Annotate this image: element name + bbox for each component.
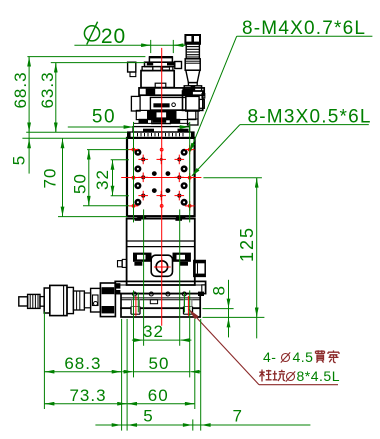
text 50 left	[71, 173, 90, 194]
svg-text:8-M4X0.7*6L: 8-M4X0.7*6L	[242, 18, 366, 39]
z-stage top plate	[145, 62, 175, 67]
vertical ext 179.3	[179, 209, 181, 345]
Ø symbol of Ø20	[84, 26, 99, 41]
text 32 left	[93, 169, 112, 190]
svg-text:5: 5	[143, 407, 153, 426]
svg-text:68.3: 68.3	[64, 354, 101, 373]
x-mic section	[67, 287, 73, 313]
svg-text:63.3: 63.3	[38, 71, 57, 108]
glyph 坑	[273, 370, 286, 381]
dim 63.3 left	[55, 63, 57, 133]
micrometer neck	[188, 83, 197, 86]
dim 8 right	[228, 280, 230, 338]
vertical ext 143.2	[143, 209, 145, 345]
dim 73.3 bottom	[44, 403, 127, 405]
y-stage right knob	[194, 261, 205, 277]
ext line A y132	[26, 131, 127, 133]
y-stage rounded square	[151, 255, 172, 276]
PLATE-HOLES	[129, 145, 195, 211]
dim 60 bottom	[127, 403, 195, 405]
band A-B	[127, 132, 195, 138]
50-pattern red cross marks	[129, 145, 195, 211]
svg-text:60: 60	[148, 386, 169, 405]
x-mic body	[50, 285, 67, 315]
z-stage right body	[183, 91, 205, 110]
dim 5 left bottom arrow	[28, 139, 30, 147]
svg-text:8: 8	[210, 285, 229, 295]
svg-text:5: 5	[10, 155, 29, 165]
z-stage right tab	[175, 62, 182, 69]
micrometer ratchet ribbed	[186, 44, 199, 59]
svg-text:32: 32	[93, 169, 112, 190]
x-mic small	[84, 293, 90, 308]
bottom vertical ext 192.4	[192, 419, 194, 430]
x-mic step	[40, 297, 44, 307]
svg-text:4-: 4-	[263, 349, 276, 365]
dim 68.3 left	[28, 57, 30, 174]
ext 68.3 top	[27, 56, 145, 58]
long vertical ext 189.3	[189, 122, 191, 222]
main plate	[127, 138, 195, 216]
z-stage left tab	[128, 62, 136, 76]
plate feet	[137, 216, 146, 220]
svg-text:50: 50	[92, 107, 116, 128]
y-stage center circle	[156, 261, 168, 273]
svg-text:32: 32	[143, 322, 164, 341]
svg-text:8-M3X0.5*6L: 8-M3X0.5*6L	[248, 107, 372, 128]
bottom vertical ext 44	[43, 311, 45, 409]
svg-text:4.5: 4.5	[293, 349, 314, 365]
glyph 穿	[328, 350, 339, 362]
inner 4 dots	[152, 171, 170, 193]
block row y119-123	[133, 119, 189, 124]
text 125 right	[237, 226, 257, 262]
dim 32 bottom	[144, 339, 180, 341]
y-stage clamp arm right	[173, 253, 191, 266]
x-mic flange	[44, 288, 50, 313]
x-mic ribbed thimble	[28, 294, 40, 308]
y-stage left bits	[118, 259, 127, 267]
leader 8-M4	[237, 35, 373, 37]
ext 63.3 top	[51, 62, 145, 64]
dim 125 right	[256, 178, 258, 339]
y-stage circle cross	[154, 259, 171, 276]
svg-text:68.3: 68.3	[11, 71, 30, 108]
z-stage neck2	[152, 120, 171, 124]
bottom vertical ext 121.2	[121, 319, 123, 431]
dim 68.3 bottom	[44, 371, 121, 373]
glyph 柱	[259, 370, 271, 382]
x-mic bracket	[100, 283, 115, 317]
svg-text:8*4.5L: 8*4.5L	[297, 368, 340, 384]
glyph 貫	[316, 350, 325, 362]
ext line B y137.9	[22, 137, 127, 139]
bottom vertical ext 200.3	[200, 319, 202, 431]
svg-text:50: 50	[149, 354, 170, 373]
dim 32 left	[112, 160, 114, 196]
text 63.3 left	[38, 71, 57, 108]
M3 holes with crosses	[141, 157, 181, 197]
x-stage table	[115, 281, 205, 293]
svg-text:50: 50	[71, 173, 90, 194]
text 70 left	[41, 168, 60, 189]
y-stage box	[127, 219, 195, 285]
dim line Ø20	[74, 44, 185, 46]
z-stage shoulders	[142, 67, 173, 71]
svg-text:7: 7	[232, 407, 242, 426]
micrometer cap U-top	[185, 35, 200, 44]
micrometer taper sleeve	[186, 70, 200, 82]
svg-text:125: 125	[237, 226, 257, 262]
dim 70 left	[62, 138, 64, 216]
counterbore centerline right	[187, 296, 189, 316]
x-mic tip	[19, 297, 28, 306]
z-stage mid flange	[139, 88, 204, 95]
z-stage body2 center block	[150, 97, 186, 110]
x-stage base	[121, 292, 204, 309]
dim 50 bottom	[134, 371, 190, 373]
bottom vertical ext 194.4	[194, 319, 196, 409]
RED-CENTERLINES	[121, 48, 201, 326]
micrometer lock nut	[184, 86, 201, 91]
bottom vertical ext 126.7	[126, 319, 128, 431]
Ø symbol line1	[282, 354, 290, 362]
Ø symbol line2	[287, 373, 295, 381]
svg-text:20: 20	[101, 25, 126, 48]
plate horizontal centerline	[121, 177, 201, 179]
long vertical ext 133.1	[133, 122, 135, 222]
svg-text:73.3: 73.3	[69, 386, 106, 405]
clamp plate row A	[133, 127, 190, 132]
text 68.3 left	[11, 71, 30, 108]
y-stage clamp arm left	[133, 253, 152, 266]
x-mic coupling	[91, 288, 101, 312]
z-stage body2 right block	[186, 96, 199, 111]
text 8 right	[210, 285, 229, 295]
leader 8-M3	[240, 124, 369, 126]
z-stage body2 left column	[131, 96, 140, 111]
micrometer barrel	[185, 59, 200, 70]
z-stage body2 far-right tab	[199, 99, 204, 108]
dim 50 left	[88, 150, 90, 206]
main vertical centerline	[161, 48, 163, 326]
dim 50 top	[68, 126, 134, 128]
x-mic spindle	[73, 291, 84, 310]
vertical ext 184.1 x-stage	[184, 292, 186, 312]
z-stage knob cap	[149, 57, 173, 62]
z-stage main body	[141, 71, 174, 88]
text 5 left	[10, 155, 29, 165]
DARKRED-ANNOTATION	[189, 309, 340, 384]
x-stage bottom plate	[121, 308, 200, 317]
counterbore right	[184, 300, 193, 315]
z-stage saddle dark cluster	[136, 110, 198, 125]
vertical ext 137.9 x-stage	[137, 292, 139, 312]
dim 5/7 bottom line	[95, 424, 310, 426]
counterbore left	[131, 300, 140, 315]
M4 donut holes	[134, 149, 187, 206]
leader 4-hole	[189, 309, 259, 384]
counterbore centerline left	[135, 296, 137, 316]
BLACK-DRAWING	[19, 35, 206, 317]
svg-text:70: 70	[41, 168, 60, 189]
